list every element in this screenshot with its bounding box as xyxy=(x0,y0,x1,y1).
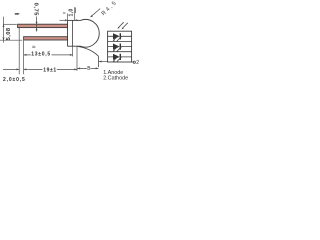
schematic divider 2 xyxy=(108,51,132,53)
dimension 5,08 extension line top xyxy=(3,23,17,25)
lead L1 (anode, top) xyxy=(18,24,68,27)
dimension 2,0±0,5 approach lines xyxy=(3,68,19,70)
body bottom edge xyxy=(68,45,81,47)
dimension B line xyxy=(77,67,98,69)
svg-text:13±0,5: 13±0,5 xyxy=(31,52,51,58)
svg-text:R4,5: R4,5 xyxy=(101,0,119,17)
svg-text:≈: ≈ xyxy=(32,44,36,51)
LED body flange xyxy=(67,20,69,46)
svg-text:0,75: 0,75 xyxy=(32,3,38,17)
diode D3 emission arrows xyxy=(114,57,121,62)
dimension ~1,0 ext line left xyxy=(67,14,69,21)
diode D3 triangle xyxy=(113,54,120,60)
diode D2 triangle xyxy=(113,44,120,50)
svg-text:≈: ≈ xyxy=(63,11,66,17)
diode D2 cathode bar xyxy=(119,44,121,50)
dimension 5,08 line xyxy=(3,17,5,43)
dimension 5,08 extension line bottom xyxy=(0,39,22,41)
dimension 0,75 line xyxy=(36,17,38,32)
diode D1 emission arrows (lower) xyxy=(114,36,121,41)
dimension 13±0,5 line xyxy=(24,54,73,56)
dimension 5,08 arrowheads xyxy=(3,24,5,27)
epoxy dome xyxy=(81,19,100,47)
diode D2 emission arrows xyxy=(114,46,121,51)
pin 2 terminal circle xyxy=(133,61,135,63)
extension line from lead tip L2 xyxy=(23,40,25,74)
diode D3 wire xyxy=(108,56,132,58)
approx mark near top lead tip xyxy=(15,13,18,15)
extension line below flange (for 13 dim) xyxy=(72,46,74,56)
schematic divider 1 xyxy=(108,41,132,43)
diode D1 wire xyxy=(108,35,132,37)
diode D2 wire xyxy=(108,46,132,48)
extension line from dome start (for 19 dim) xyxy=(76,46,78,71)
svg-text:2,0±0,5: 2,0±0,5 xyxy=(3,77,26,83)
svg-text:1,0: 1,0 xyxy=(69,8,75,16)
svg-text:19±1: 19±1 xyxy=(43,68,57,74)
diode D3 cathode bar xyxy=(119,54,121,60)
diode D1 cathode bar xyxy=(119,33,121,39)
flange/cylinder junction line xyxy=(72,20,74,46)
dimension 19±1 line xyxy=(29,68,77,70)
dimension ~1,0 approach line + arrows xyxy=(60,19,68,21)
diode D1 triangle xyxy=(113,33,120,39)
diode D1 emission arrows xyxy=(119,22,128,28)
lead L2 (cathode, bottom) xyxy=(24,37,68,40)
pin 2 wire xyxy=(132,61,134,63)
dimension 0,75 arrowheads xyxy=(36,22,38,25)
dimension ~1,0 ext line right xyxy=(74,7,76,20)
schematic box xyxy=(108,31,132,62)
R4,5 leader xyxy=(91,9,101,17)
svg-text:5,08: 5,08 xyxy=(6,27,12,40)
svg-text:B: B xyxy=(87,66,91,72)
dimension arrow to apex ext line (pin wire) xyxy=(99,61,108,63)
extension line from lead tip L1 xyxy=(18,28,20,74)
wire / outline curve from body to apex extension xyxy=(77,46,98,67)
svg-text:2: 2 xyxy=(136,60,139,66)
svg-text:2.Cathode: 2.Cathode xyxy=(103,76,128,82)
body top edge xyxy=(68,19,81,21)
